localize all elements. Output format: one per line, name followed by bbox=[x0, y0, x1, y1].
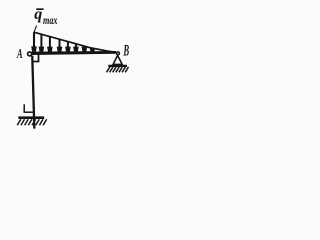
leader line from label to load bbox=[34, 26, 37, 34]
load label q_max bbox=[34, 6, 57, 27]
ground line at column base bbox=[18, 116, 44, 119]
load arrow 1 (tall left edge) bbox=[31, 32, 37, 51]
svg-text:A: A bbox=[16, 46, 22, 61]
hatching at column base bbox=[17, 119, 47, 125]
load arrow 4 bbox=[57, 39, 63, 52]
hinge A (pin circle) bbox=[28, 52, 32, 56]
column (vertical post) bbox=[31, 56, 35, 129]
load arrow 3 bbox=[47, 37, 53, 52]
load arrow 2 bbox=[39, 34, 45, 52]
beam AB bbox=[32, 51, 117, 55]
svg-text:B: B bbox=[123, 43, 129, 60]
bracket at A (right step below beam) bbox=[32, 53, 39, 61]
sloped top line of triangular load bbox=[34, 32, 116, 52]
bracket at base (left step above ground) bbox=[24, 104, 35, 112]
roller support triangle at B bbox=[113, 55, 122, 64]
ground line at B bbox=[108, 65, 127, 67]
hatching at B bbox=[107, 67, 129, 72]
svg-text:max: max bbox=[43, 13, 58, 27]
load arrow 7 bbox=[82, 47, 88, 52]
pin circle at B bbox=[117, 52, 120, 55]
load arrow 6 bbox=[73, 44, 79, 52]
load arrow 5 bbox=[65, 42, 71, 52]
load arrow 8 bbox=[90, 48, 96, 52]
